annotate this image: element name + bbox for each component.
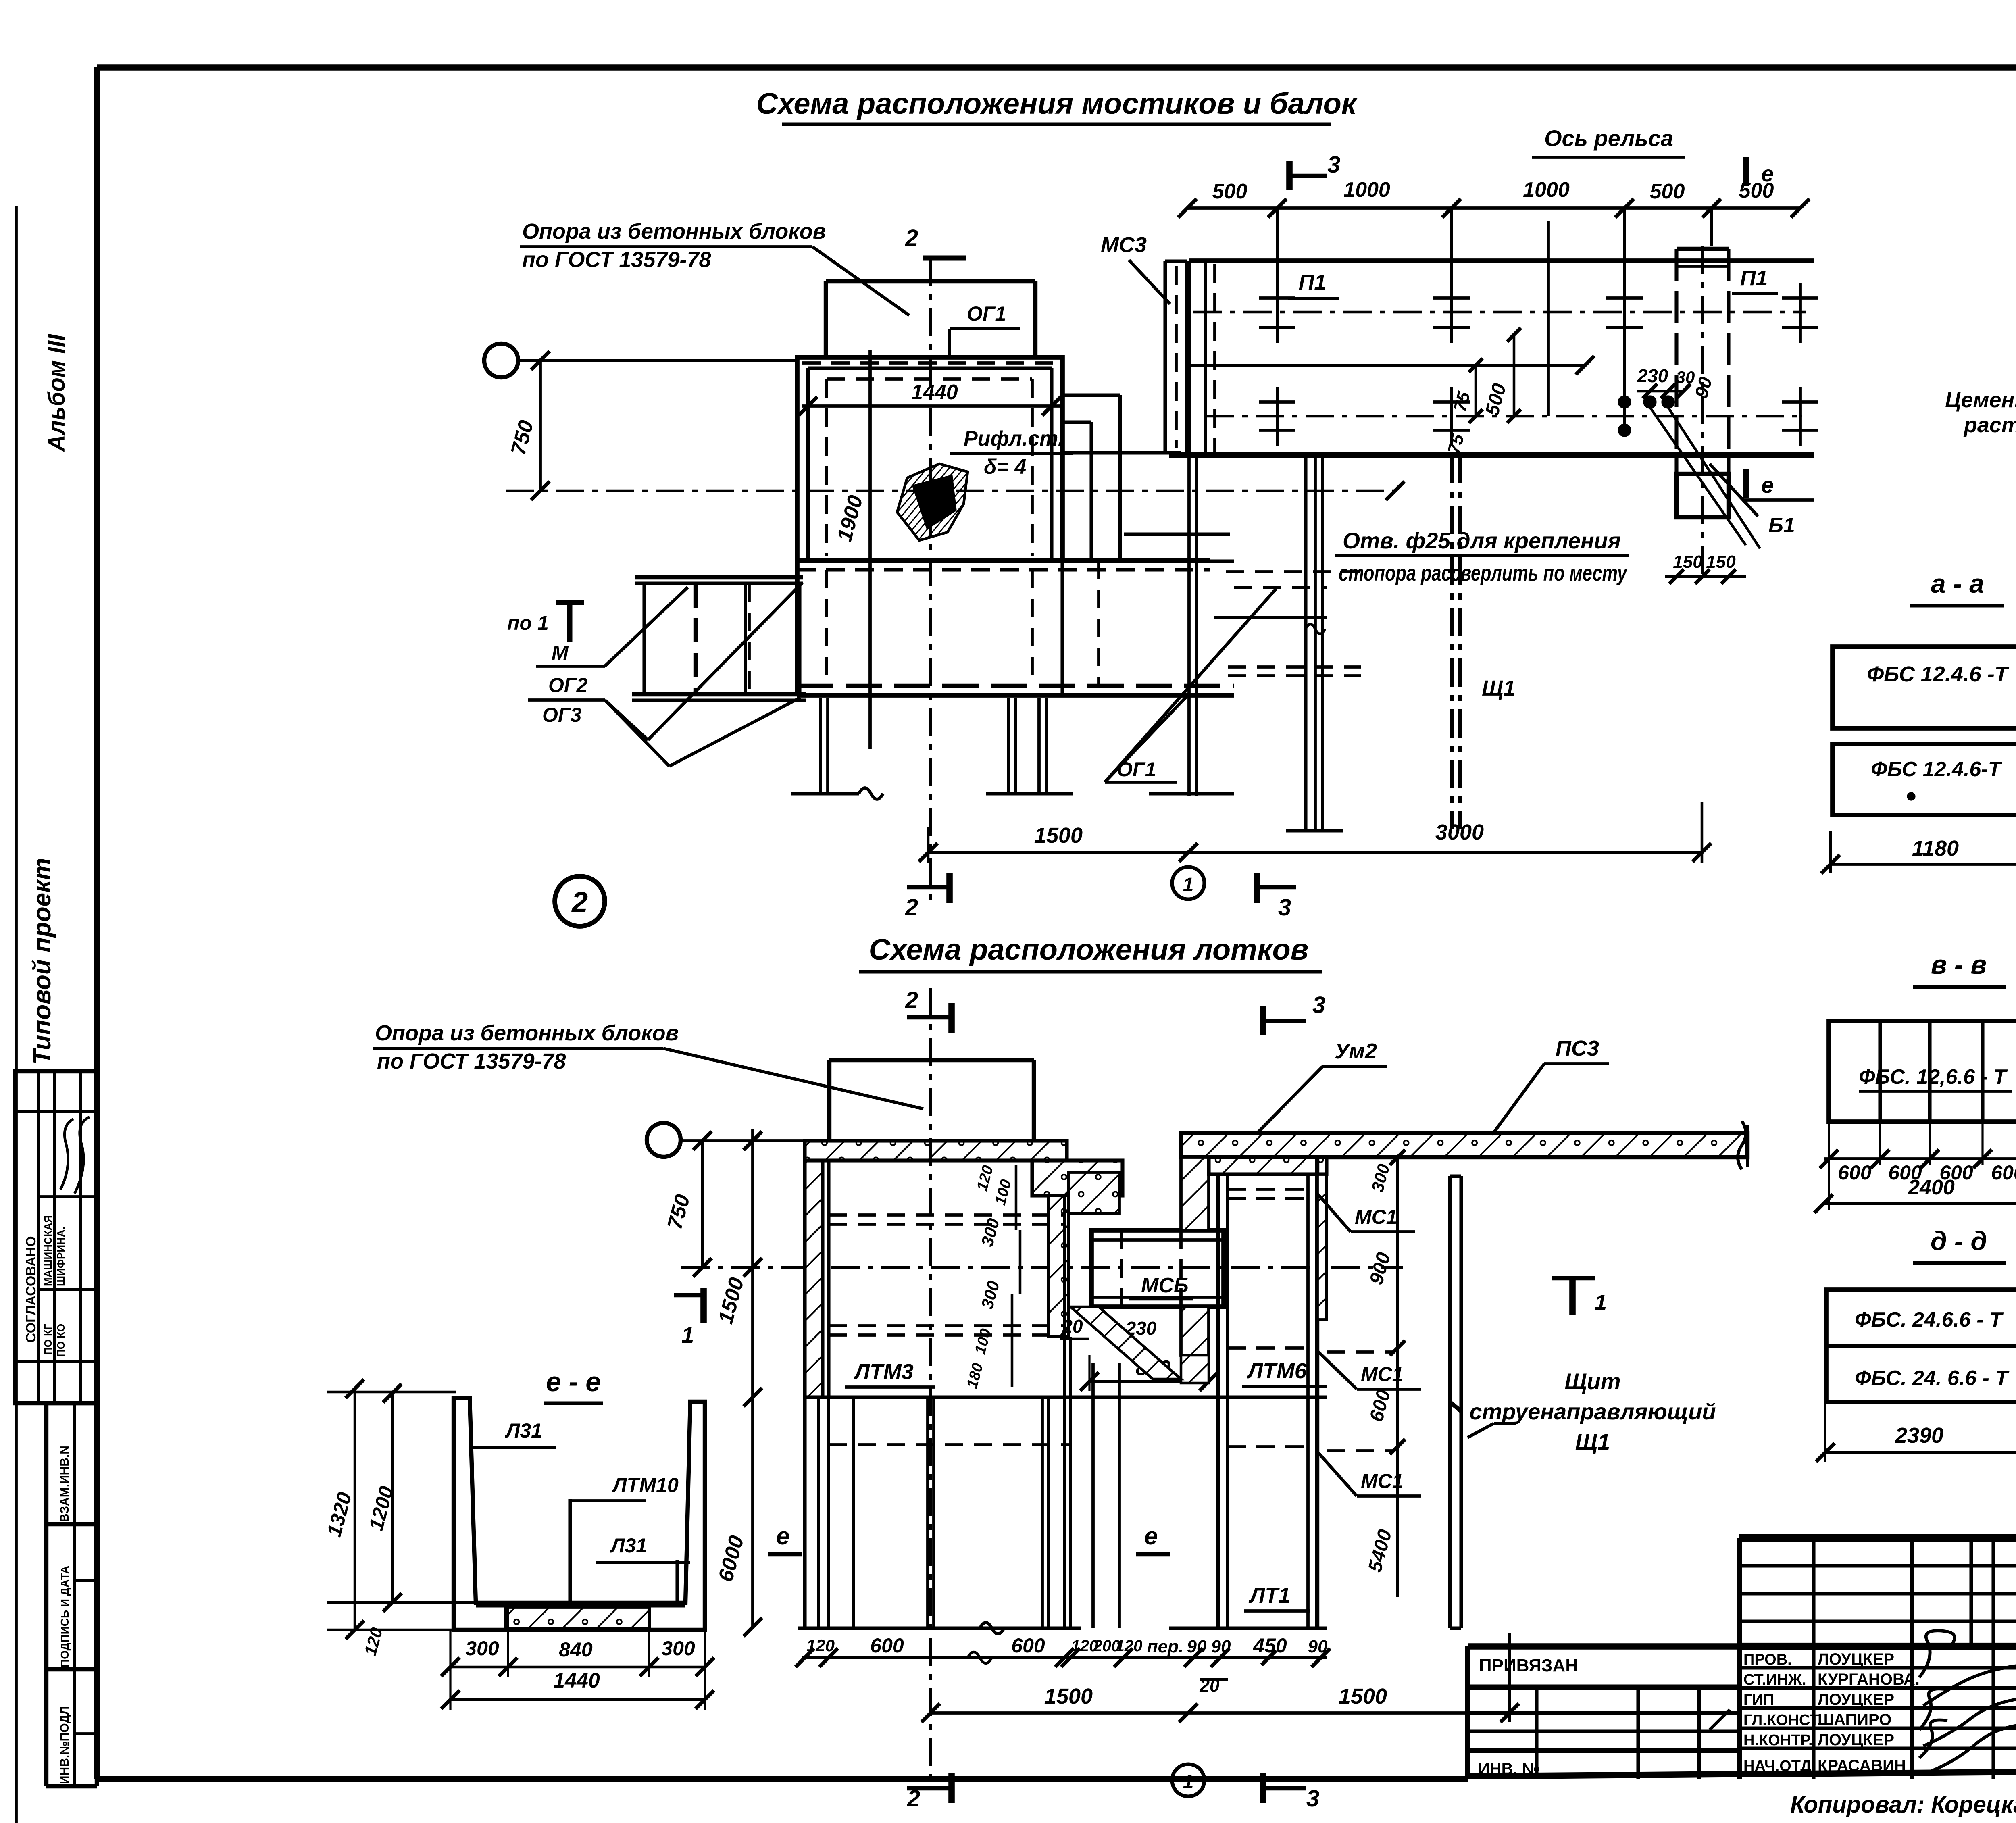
label Ось рельса xyxy=(1532,125,1685,157)
vertical centerline axis 2 (top plan) xyxy=(929,258,932,907)
sidebar vertical text Альбом III xyxy=(44,333,70,452)
junction rectangles between tank and walkway xyxy=(1062,395,1327,796)
footer texts below frame xyxy=(1790,1784,2016,1818)
svg-text:3: 3 xyxy=(1327,152,1340,178)
svg-text:КУРГАНОВА.: КУРГАНОВА. xyxy=(1818,1671,1920,1688)
svg-text:600: 600 xyxy=(1991,1161,2016,1184)
svg-text:150: 150 xyxy=(1673,552,1703,572)
svg-text:ФБС 12.4.6 -Т: ФБС 12.4.6 -Т xyxy=(1867,662,2010,686)
в-в blocks row xyxy=(1829,1021,2016,1122)
svg-text:1: 1 xyxy=(1183,1771,1194,1793)
sidebar approval table xyxy=(15,1071,97,1403)
tank inner wall vertical line xyxy=(868,350,872,749)
dim 750 (top plan) xyxy=(506,351,550,500)
stopper holes dots and leaders xyxy=(1619,365,1760,548)
svg-text:Рифл.ст.: Рифл.ст. xyxy=(964,427,1064,450)
label ОГ1 top xyxy=(950,302,1020,357)
section mark 3 top xyxy=(1289,152,1340,190)
svg-text:ЛТ1: ЛТ1 xyxy=(1248,1583,1290,1608)
title: Схема расположения мостиков и балок xyxy=(756,87,1358,124)
sidebar lower table xyxy=(46,1403,97,1786)
section mark 3 bottom (lower plan) xyxy=(1263,1773,1319,1812)
svg-text:840: 840 xyxy=(559,1638,593,1661)
в-в bottom dims xyxy=(1814,1122,2016,1213)
section mark 3 bottom (top plan) xyxy=(1257,873,1296,921)
tank interior verticals below centerline xyxy=(805,1196,1327,1628)
svg-text:струенаправляющий: струенаправляющий xyxy=(1469,1399,1716,1424)
hatched partition wall at ЛТМ6 left xyxy=(1181,1157,1209,1383)
label Щит струенаправляющий Щ1 xyxy=(1468,1369,1716,1454)
svg-text:ОГ2: ОГ2 xyxy=(548,674,588,696)
svg-text:1: 1 xyxy=(1183,874,1194,896)
svg-text:90: 90 xyxy=(1211,1637,1231,1656)
svg-text:Схема расположения лотков: Схема расположения лотков xyxy=(869,933,1309,966)
sidebar vertical text Типовой проект xyxy=(28,858,56,1065)
label Б1 leader xyxy=(1710,464,1795,537)
svg-text:230: 230 xyxy=(1637,365,1668,386)
svg-text:2: 2 xyxy=(905,987,918,1013)
svg-text:д - д: д - д xyxy=(1931,1226,1987,1256)
svg-text:ПО КГ: ПО КГ xyxy=(42,1324,54,1355)
svg-text:600: 600 xyxy=(1838,1161,1872,1184)
Т1 section flag right xyxy=(1552,1278,1607,1315)
slab step down right xyxy=(1032,1160,1123,1337)
svg-text:150: 150 xyxy=(1706,552,1736,572)
MC3 column xyxy=(1101,233,1187,453)
svg-text:Копировал: Корецкая: Копировал: Корецкая xyxy=(1790,1792,2016,1818)
label М leader xyxy=(536,587,688,666)
svg-text:ВЗАМ.ИНВ.N: ВЗАМ.ИНВ.N xyxy=(58,1446,71,1522)
svg-text:ПРОВ.: ПРОВ. xyxy=(1743,1651,1792,1668)
support block (lower plan) xyxy=(829,1060,1034,1140)
svg-text:3: 3 xyxy=(1306,1785,1319,1812)
svg-text:2390: 2390 xyxy=(1895,1423,1943,1448)
svg-text:Щ1: Щ1 xyxy=(1482,676,1515,700)
svg-text:1440: 1440 xyxy=(553,1669,600,1692)
dim 1440 xyxy=(799,381,1061,415)
svg-text:1500: 1500 xyxy=(1339,1684,1387,1708)
right dim chain 300 900 600 5400 xyxy=(1364,1150,1405,1597)
svg-text:М: М xyxy=(552,642,569,664)
section а-а title xyxy=(1910,569,2004,606)
svg-text:δ= 4: δ= 4 xyxy=(984,455,1027,479)
section mark 1 left flag xyxy=(674,1288,704,1348)
svg-text:МСБ: МСБ xyxy=(1141,1274,1189,1297)
svg-text:600: 600 xyxy=(1011,1634,1045,1657)
svg-text:1000: 1000 xyxy=(1523,178,1570,202)
svg-text:300: 300 xyxy=(465,1637,499,1660)
svg-text:Н.КОНТР.: Н.КОНТР. xyxy=(1743,1732,1813,1749)
Ум2 slab hatched xyxy=(1181,1121,1747,1169)
section mark е upper xyxy=(1746,157,1774,186)
svg-text:Щ1: Щ1 xyxy=(1575,1429,1610,1454)
svg-text:2400: 2400 xyxy=(1908,1176,1955,1199)
svg-text:1: 1 xyxy=(1595,1290,1607,1315)
svg-text:30: 30 xyxy=(1676,368,1695,387)
svg-text:Опора из бетонных блоков: Опора из бетонных блоков xyxy=(375,1021,679,1045)
dim chain above walkway: 500 1000 1000 500 500 xyxy=(1178,178,1810,435)
tank left wall hatched (lower) xyxy=(805,1141,829,1397)
channel bedding hatched xyxy=(506,1607,650,1628)
dashed horizontals in ЛТМ6 xyxy=(1227,1189,1395,1451)
channel section е-е title xyxy=(544,1367,603,1403)
section mark е lower xyxy=(1743,469,1814,500)
axis circle 1 bottom (lower plan) xyxy=(1172,1764,1204,1796)
label Опора из бетонных блоков (lower) xyxy=(373,1021,923,1109)
axis cross markers on walkway xyxy=(1259,283,1818,446)
svg-text:а - а: а - а xyxy=(1931,569,1984,598)
svg-text:П1: П1 xyxy=(1740,266,1768,290)
svg-text:ФБС. 24.6.6 - Т: ФБС. 24.6.6 - Т xyxy=(1855,1308,2004,1331)
svg-text:Щит: Щит xyxy=(1564,1369,1620,1394)
svg-text:е: е xyxy=(1761,161,1774,186)
label по 1 with flag xyxy=(507,602,584,642)
svg-text:стопора рассверлить по месту: стопора рассверлить по месту xyxy=(1339,560,1628,585)
svg-text:300: 300 xyxy=(661,1637,695,1660)
svg-text:Опора из бетонных блоков: Опора из бетонных блоков xyxy=(522,219,826,244)
svg-text:120: 120 xyxy=(806,1636,835,1655)
dim 150 150 xyxy=(1665,552,1746,584)
svg-text:ЛТМ3: ЛТМ3 xyxy=(853,1360,914,1384)
svg-text:2: 2 xyxy=(905,894,918,921)
svg-text:600: 600 xyxy=(870,1634,904,1657)
hatched steel plate blob xyxy=(897,464,968,540)
svg-text:ПРИВЯЗАН: ПРИВЯЗАН xyxy=(1479,1656,1578,1675)
channel label Л31 top xyxy=(471,1419,556,1448)
section mark 2 top xyxy=(905,225,966,258)
title block xyxy=(1739,1538,2016,1779)
svg-text:1500: 1500 xyxy=(1034,823,1083,848)
tank plan upper box xyxy=(797,357,1062,560)
а-а block 1 ФБС 12.4.6-Т xyxy=(1833,647,2016,728)
section д-д title xyxy=(1913,1226,2006,1263)
dashed horizontals in tank (lower) xyxy=(829,1215,1070,1445)
svg-text:МС1: МС1 xyxy=(1355,1206,1397,1228)
svg-text:500: 500 xyxy=(1212,180,1248,203)
svg-text:в - в: в - в xyxy=(1931,950,1987,979)
tank plan lower box xyxy=(797,560,1234,695)
lower plan dims 1500 1500 xyxy=(921,1633,1519,1722)
axis circle 1 bottom (top plan) xyxy=(1172,867,1204,899)
svg-text:Отв. ф25 для крепления: Отв. ф25 для крепления xyxy=(1343,528,1621,553)
guide wall Щ1 (top plan) xyxy=(1452,455,1515,829)
section в-в title xyxy=(1913,950,2006,987)
svg-text:ФБС 12.4.6-Т: ФБС 12.4.6-Т xyxy=(1871,758,2003,781)
svg-text:ГЛ.КОНСТ.: ГЛ.КОНСТ. xyxy=(1743,1712,1822,1729)
channel left wall xyxy=(454,1398,705,1630)
svg-text:ПО КО: ПО КО xyxy=(55,1324,67,1357)
svg-text:ИНВ. №: ИНВ. № xyxy=(1478,1760,1540,1778)
svg-text:по 1: по 1 xyxy=(507,612,549,634)
section mark 2 bottom (top plan) xyxy=(905,873,950,921)
label Опора из бетонных блоков (top) xyxy=(520,219,909,315)
dashed horizontals below band xyxy=(1226,572,1361,676)
svg-text:ОГ3: ОГ3 xyxy=(542,704,582,726)
svg-text:МС3: МС3 xyxy=(1101,233,1147,257)
svg-text:90: 90 xyxy=(1187,1637,1207,1656)
axis circle marker (lower plan) xyxy=(647,1123,805,1157)
svg-text:пер.: пер. xyxy=(1147,1637,1183,1656)
svg-text:е: е xyxy=(776,1523,789,1550)
channel inner bottom xyxy=(476,1604,685,1607)
svg-text:ФБС. 24. 6.6 - Т: ФБС. 24. 6.6 - Т xyxy=(1855,1367,2010,1390)
svg-text:КРАСАВИН: КРАСАВИН xyxy=(1818,1757,1906,1775)
svg-text:ПС3: ПС3 xyxy=(1556,1036,1599,1060)
svg-text:е: е xyxy=(1761,472,1774,498)
concrete block support (top plan) xyxy=(826,281,1035,357)
svg-text:3: 3 xyxy=(1278,894,1291,921)
label ПС3 leader xyxy=(1492,1036,1609,1135)
label Рифл.ст. б=4 xyxy=(950,427,1073,479)
svg-text:3: 3 xyxy=(1312,992,1325,1018)
svg-text:1: 1 xyxy=(681,1322,694,1348)
svg-text:ШИФРИНА.: ШИФРИНА. xyxy=(55,1227,67,1286)
svg-text:по ГОСТ 13579-78: по ГОСТ 13579-78 xyxy=(522,248,711,272)
label ОГ1 bottom leaders xyxy=(1105,589,1276,782)
labels П1 on walkway xyxy=(1288,266,1778,298)
svg-text:ФБС. 12,6.6 - Т: ФБС. 12,6.6 - Т xyxy=(1859,1065,2008,1089)
section mark 3 top (lower plan) xyxy=(1263,992,1325,1035)
svg-text:ЛТМ10: ЛТМ10 xyxy=(612,1474,679,1496)
svg-text:ЛТМ6: ЛТМ6 xyxy=(1246,1359,1307,1383)
left dims 750 1500 6000 (lower plan) xyxy=(663,1129,762,1636)
svg-text:Б1: Б1 xyxy=(1768,514,1795,537)
svg-text:Типовой проект: Типовой проект xyxy=(28,858,56,1065)
svg-text:СТ.ИНЖ.: СТ.ИНЖ. xyxy=(1743,1671,1806,1688)
svg-text:по ГОСТ 13579-78: по ГОСТ 13579-78 xyxy=(377,1049,566,1073)
label Цементный раствор xyxy=(1945,351,2016,437)
svg-text:ЛОУЦКЕР: ЛОУЦКЕР xyxy=(1818,1650,1894,1668)
svg-text:ЛОУЦКЕР: ЛОУЦКЕР xyxy=(1818,1731,1894,1749)
tank top slab hatched (lower) xyxy=(805,1141,1067,1160)
svg-text:450: 450 xyxy=(1253,1634,1287,1657)
small dims 75 75 500 rotated xyxy=(1444,328,1521,456)
channel label Л31 bottom xyxy=(596,1534,690,1563)
channel lining ЛТМ10 xyxy=(570,1499,677,1604)
svg-text:Л31: Л31 xyxy=(610,1534,647,1557)
title: Схема расположения лотков xyxy=(859,933,1322,972)
support posts below tank xyxy=(791,698,1073,799)
svg-text:е: е xyxy=(1144,1523,1158,1550)
svg-text:МАШИНСКАЯ: МАШИНСКАЯ xyxy=(42,1215,54,1286)
horizontal centerline (top plan) xyxy=(506,481,1404,500)
bottom dims 1500 3000 (top plan) xyxy=(919,802,1711,863)
svg-text:НАЧ.ОТД.: НАЧ.ОТД. xyxy=(1743,1758,1816,1775)
а-а block 2 ФБС 12.4.6-Т xyxy=(1833,744,2016,815)
svg-text:ПОДПИСЬ И ДАТА: ПОДПИСЬ И ДАТА xyxy=(58,1566,71,1667)
svg-text:90: 90 xyxy=(1308,1637,1328,1656)
svg-text:Л31: Л31 xyxy=(505,1419,542,1442)
е section labels (lower plan) xyxy=(768,1523,1170,1554)
section mark 2 top (lower plan) xyxy=(905,987,952,1033)
svg-text:1440: 1440 xyxy=(911,381,958,404)
svg-text:1500: 1500 xyxy=(1044,1684,1093,1708)
svg-text:ЛОУЦКЕР: ЛОУЦКЕР xyxy=(1818,1691,1894,1708)
hatched diagonal band below МСБ xyxy=(1070,1307,1181,1379)
svg-text:е - е: е - е xyxy=(546,1367,601,1397)
svg-text:Схема расположения мостиков: Схема расположения мостиков и балок xyxy=(756,87,1358,120)
svg-text:Ум2: Ум2 xyxy=(1335,1039,1377,1063)
МС1 labels and leaders xyxy=(1317,1194,1421,1496)
svg-text:1180: 1180 xyxy=(1912,836,1959,860)
svg-text:Ось рельса: Ось рельса xyxy=(1544,125,1673,151)
small dim chain 120 100 300 300 100 rotated xyxy=(964,1164,1020,1390)
lower plan bottom dim chain xyxy=(796,1634,1330,1696)
МСБ connector box xyxy=(1091,1230,1224,1307)
ground line lower plan xyxy=(798,1623,1327,1634)
dims 20 230 830 xyxy=(1060,1316,1218,1391)
svg-text:раствор: раствор xyxy=(1963,413,2016,437)
svg-text:120: 120 xyxy=(1116,1637,1143,1655)
tank right wall below band xyxy=(1286,455,1343,831)
svg-text:2: 2 xyxy=(905,225,918,251)
dim 1900 rotated xyxy=(833,493,868,544)
horizontal centerline (lower plan) xyxy=(681,1266,1403,1269)
svg-text:Альбом III: Альбом III xyxy=(44,333,70,452)
а-а bottom dim 1180 xyxy=(1821,823,2016,873)
svg-text:П1: П1 xyxy=(1299,270,1327,294)
ЛТМ6 box walls xyxy=(1218,1157,1327,1628)
axis circle 2 left (top plan) xyxy=(555,876,605,926)
svg-text:ГИП: ГИП xyxy=(1743,1692,1774,1708)
attachment table xyxy=(1468,1646,1739,1779)
svg-text:500: 500 xyxy=(1650,180,1685,203)
walkway band П1 xyxy=(1169,221,1814,455)
channel dims 1320 1200 120 xyxy=(323,1379,476,1658)
label Ум2 leader xyxy=(1258,1039,1387,1132)
vertical centerline axis (lower plan) xyxy=(929,988,932,1786)
labels ОГ2 ОГ3 leaders xyxy=(528,583,802,766)
svg-text:СОГЛАСОВАНО: СОГЛАСОВАНО xyxy=(23,1236,39,1343)
svg-text:1000: 1000 xyxy=(1343,178,1390,202)
д-д blocks ФБС 24.6.6-Т xyxy=(1826,1290,2016,1402)
channel label ЛТМ10 xyxy=(570,1474,679,1501)
labels ЛТМ3 ЛТМ6 ЛТ1 xyxy=(845,1359,1327,1611)
svg-text:ШАПИРО: ШАПИРО xyxy=(1818,1711,1891,1729)
note Отв ф25 для крепления xyxy=(1335,528,1629,585)
section mark 2 bottom (lower plan) xyxy=(907,1773,952,1812)
guide wall Щ1 (lower plan) xyxy=(1450,1176,1461,1628)
svg-text:Цементный: Цементный xyxy=(1945,388,2016,412)
svg-text:2: 2 xyxy=(571,886,588,919)
stairs / bridge ОГ2-ОГ3 xyxy=(632,577,806,700)
svg-text:ИНВ.№ПОДЛ: ИНВ.№ПОДЛ xyxy=(58,1706,71,1784)
axis circle marker (top plan) xyxy=(484,344,797,377)
tank mid division xyxy=(797,560,1210,570)
beam Б1 plan xyxy=(1677,246,1729,581)
ЛТМ6 top slab hatched xyxy=(1209,1157,1327,1174)
channel bottom dims 300 840 300 1440 xyxy=(441,1607,714,1710)
д-д bottom dim 2390 xyxy=(1816,1402,2016,1462)
svg-text:ОГ1: ОГ1 xyxy=(967,302,1006,325)
